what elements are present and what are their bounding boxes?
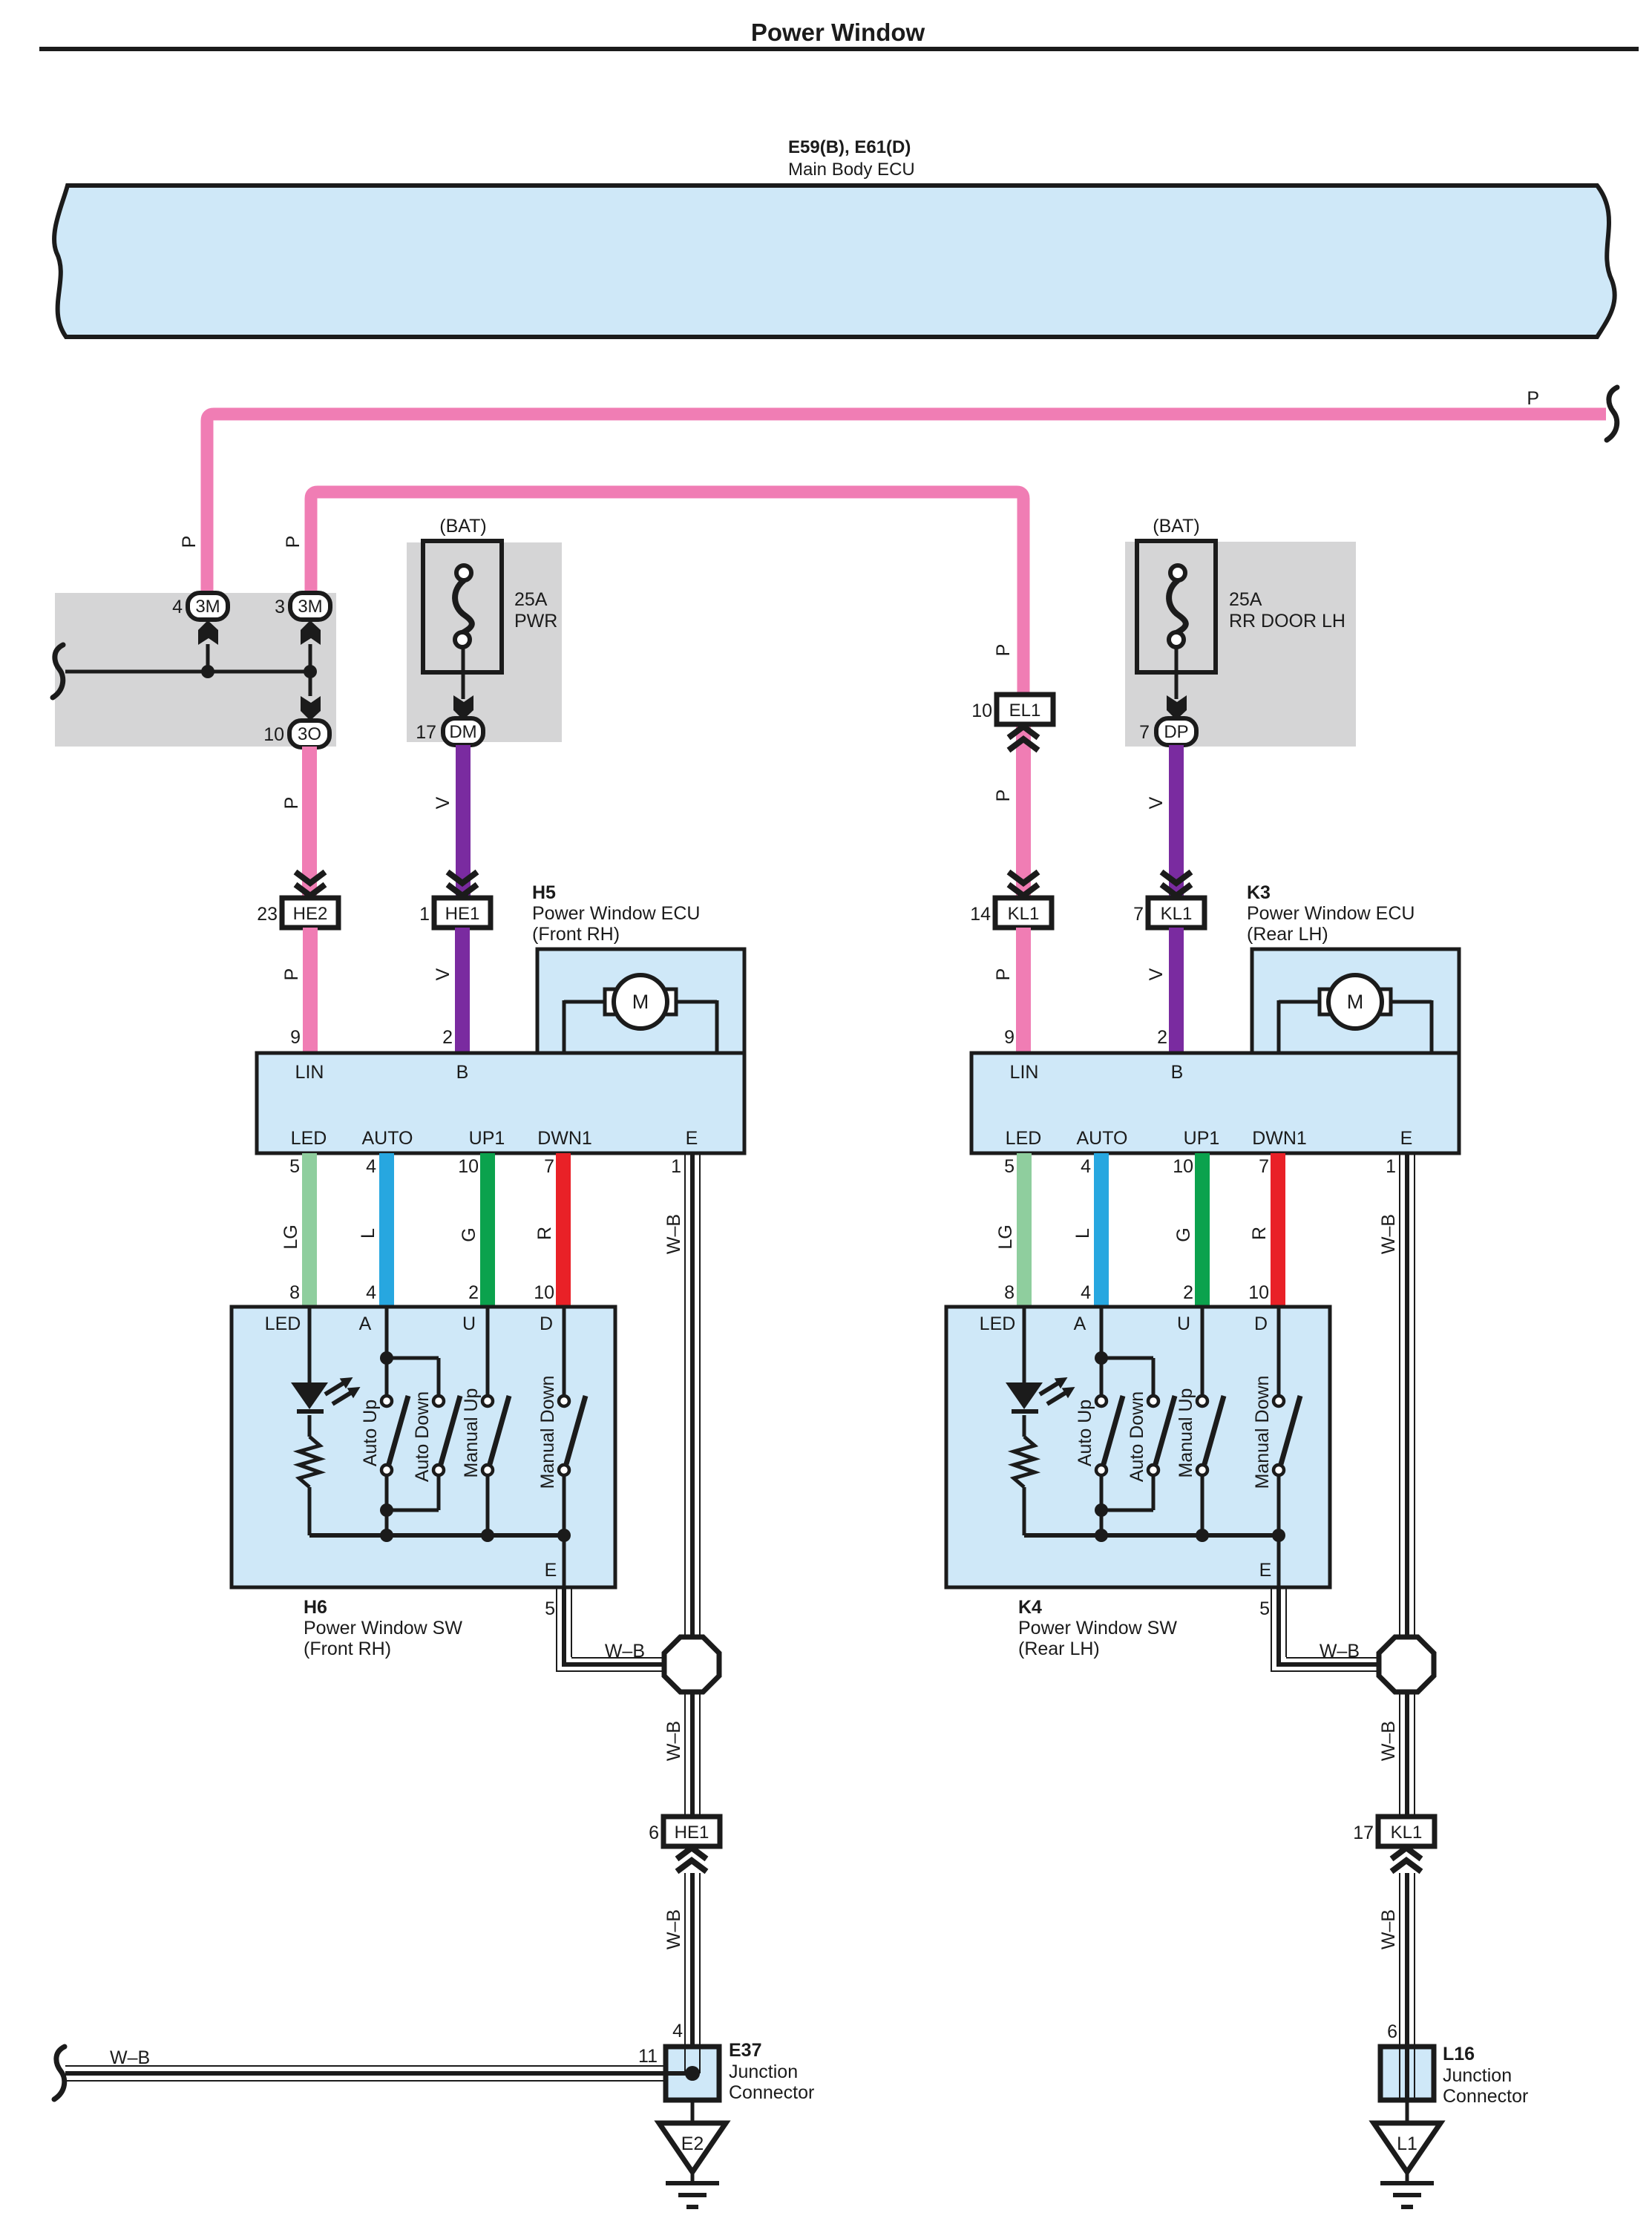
svg-text:EL1: EL1 bbox=[1009, 701, 1041, 721]
svg-text:2: 2 bbox=[1183, 1282, 1193, 1303]
label H6 bbox=[304, 1597, 462, 1659]
fuse RR DOOR LH element bbox=[1169, 565, 1186, 647]
label W-B above E37 bbox=[663, 1909, 684, 1949]
power window SW H6 bbox=[232, 1307, 615, 1587]
label P above EL1 bbox=[993, 644, 1014, 657]
svg-text:Junction: Junction bbox=[1443, 2065, 1512, 2086]
svg-text:B: B bbox=[1171, 1062, 1184, 1083]
wire LG right bbox=[1017, 1153, 1032, 1307]
svg-text:17: 17 bbox=[416, 722, 436, 743]
label H5 bbox=[532, 882, 700, 945]
wire G right bbox=[1195, 1153, 1210, 1307]
svg-text:2: 2 bbox=[1157, 1027, 1167, 1048]
svg-text:17: 17 bbox=[1353, 1823, 1374, 1843]
svg-text:HE1: HE1 bbox=[445, 904, 480, 924]
svg-text:10: 10 bbox=[263, 724, 284, 745]
arrow into 3O pin10 bbox=[301, 696, 321, 721]
svg-text:5: 5 bbox=[1259, 1598, 1270, 1619]
svg-text:Power Window SW: Power Window SW bbox=[304, 1618, 462, 1639]
wire V to HE1 bbox=[456, 745, 471, 898]
svg-text:B: B bbox=[456, 1062, 469, 1083]
svg-text:7: 7 bbox=[1139, 722, 1150, 743]
break squiggle harness left bbox=[53, 645, 63, 698]
svg-text:L: L bbox=[1072, 1228, 1093, 1239]
svg-text:E: E bbox=[1259, 1560, 1272, 1581]
svg-text:P: P bbox=[993, 644, 1014, 657]
svg-text:L16: L16 bbox=[1443, 2044, 1475, 2064]
svg-text:LED: LED bbox=[980, 1313, 1016, 1334]
label G left bbox=[459, 1227, 479, 1241]
svg-text:PWR: PWR bbox=[514, 611, 557, 632]
wire V to KL1-7 bbox=[1169, 745, 1184, 898]
splice octagon left bbox=[664, 1637, 719, 1692]
svg-text:Auto Down: Auto Down bbox=[1127, 1391, 1147, 1482]
svg-text:LG: LG bbox=[995, 1224, 1016, 1249]
svg-text:HE2: HE2 bbox=[293, 904, 328, 924]
svg-text:G: G bbox=[1173, 1227, 1194, 1241]
arrow into 3M pin3 bbox=[301, 620, 321, 645]
svg-text:1: 1 bbox=[1386, 1156, 1396, 1177]
svg-text:8: 8 bbox=[289, 1282, 300, 1303]
label (BAT) right bbox=[1153, 516, 1199, 537]
label (BAT) left bbox=[439, 516, 486, 537]
chevron into KL1-14 bbox=[1009, 872, 1038, 896]
chevron below HE1-6 bbox=[677, 1848, 707, 1872]
svg-text:E59(B), E61(D): E59(B), E61(D) bbox=[788, 137, 911, 157]
svg-text:P: P bbox=[993, 790, 1014, 802]
wire fuse to DP bbox=[1175, 647, 1179, 699]
wire V HE1 to ECU bbox=[455, 928, 470, 1053]
svg-text:A: A bbox=[1074, 1313, 1086, 1334]
splice octagon right bbox=[1379, 1637, 1434, 1692]
svg-text:A: A bbox=[359, 1313, 372, 1334]
svg-text:5: 5 bbox=[289, 1156, 300, 1177]
pin numbers above SW right bbox=[1004, 1282, 1269, 1303]
label P above ECU left bbox=[281, 968, 302, 981]
svg-text:5: 5 bbox=[1004, 1156, 1015, 1177]
label E37 bbox=[729, 2040, 814, 2103]
gray harness box left bbox=[55, 593, 336, 747]
label L right bbox=[1072, 1228, 1093, 1239]
label P wire1 vertical bbox=[179, 536, 200, 548]
label V above ECU right bbox=[1146, 968, 1167, 980]
junction dot E37 bbox=[685, 2066, 700, 2081]
pin numbers below ECU right bbox=[1004, 1156, 1396, 1177]
label V below DP bbox=[1146, 796, 1167, 809]
label W-B at octagon right bbox=[1320, 1641, 1360, 1662]
svg-text:3M: 3M bbox=[298, 597, 322, 617]
label L16 bbox=[1443, 2044, 1528, 2107]
wire V KL1 to ECU bbox=[1169, 928, 1184, 1053]
svg-text:L1: L1 bbox=[1397, 2133, 1417, 2154]
svg-text:L: L bbox=[358, 1228, 378, 1239]
svg-text:LED: LED bbox=[265, 1313, 301, 1334]
connector EL1 pin 10 bbox=[971, 695, 1053, 724]
svg-text:1: 1 bbox=[419, 904, 430, 925]
ECU K3 boxes bbox=[971, 949, 1459, 1153]
svg-text:3O: 3O bbox=[298, 724, 321, 744]
label R right bbox=[1249, 1227, 1270, 1240]
wire W-B ECU-E right bbox=[1400, 1153, 1415, 1820]
connector KL1 pin 14 bbox=[970, 898, 1052, 928]
chevron below EL1 bbox=[1009, 726, 1038, 750]
junction connector L16 bbox=[1380, 2047, 1434, 2100]
svg-text:DWN1: DWN1 bbox=[1252, 1128, 1307, 1149]
svg-text:Manual Down: Manual Down bbox=[537, 1376, 558, 1489]
arrow into 3M pin4 bbox=[198, 620, 218, 645]
connector 3M pin 3 bbox=[275, 593, 330, 620]
label V above ECU left bbox=[433, 968, 453, 980]
svg-text:Auto Up: Auto Up bbox=[1075, 1400, 1095, 1466]
pin 11 E37 bbox=[638, 2046, 658, 2067]
svg-text:4: 4 bbox=[172, 597, 183, 617]
motor leads H5 bbox=[564, 1000, 717, 1052]
junction dot B bbox=[304, 665, 317, 678]
svg-text:3: 3 bbox=[275, 597, 285, 617]
label P wire2 vertical bbox=[283, 536, 304, 548]
chevron into KL1-7 bbox=[1161, 872, 1191, 896]
horizontal W-B bus left bbox=[65, 2066, 689, 2081]
svg-text:DWN1: DWN1 bbox=[537, 1128, 592, 1149]
svg-text:UP1: UP1 bbox=[469, 1128, 505, 1149]
label G right bbox=[1173, 1227, 1194, 1241]
wire to 3M pin3 bbox=[309, 644, 312, 672]
label P below EL1 bbox=[993, 790, 1014, 802]
svg-text:4: 4 bbox=[1081, 1282, 1091, 1303]
wire P KL1 to ECU bbox=[1016, 928, 1031, 1053]
label K3 bbox=[1247, 882, 1415, 945]
svg-text:G: G bbox=[459, 1227, 479, 1241]
svg-text:14: 14 bbox=[970, 904, 991, 925]
wire to 3O pin10 bbox=[309, 672, 312, 696]
svg-text:7: 7 bbox=[1133, 904, 1144, 925]
svg-text:DM: DM bbox=[449, 722, 476, 742]
arrow into DP bbox=[1167, 695, 1187, 720]
chevron below KL1-17 bbox=[1392, 1848, 1421, 1872]
svg-text:LED: LED bbox=[291, 1128, 327, 1149]
svg-text:8: 8 bbox=[1004, 1282, 1015, 1303]
label 25A PWR bbox=[514, 589, 557, 632]
pin 9 LIN left bbox=[290, 1027, 301, 1048]
connector HE1 pin 6 bbox=[649, 1817, 720, 1846]
svg-text:(Front RH): (Front RH) bbox=[532, 924, 620, 945]
main body ECU box E59/E61 bbox=[54, 186, 1615, 337]
label 25A RR DOOR LH bbox=[1229, 589, 1345, 632]
motor leads K3 bbox=[1279, 1000, 1432, 1052]
svg-text:RR DOOR LH: RR DOOR LH bbox=[1229, 611, 1345, 632]
label L left bbox=[358, 1228, 378, 1239]
svg-text:H5: H5 bbox=[532, 882, 556, 903]
wire W-B KL1 to L16 bbox=[1400, 1873, 1415, 2100]
wire W-B through E37 v bbox=[685, 2047, 700, 2073]
svg-text:Junction: Junction bbox=[729, 2061, 798, 2082]
svg-text:4: 4 bbox=[672, 2021, 683, 2041]
svg-text:(Rear LH): (Rear LH) bbox=[1018, 1639, 1100, 1659]
svg-text:R: R bbox=[1249, 1227, 1270, 1240]
svg-text:W–B: W–B bbox=[110, 2047, 150, 2068]
wire to 3M pin4 bbox=[206, 644, 210, 672]
svg-text:P: P bbox=[993, 968, 1014, 981]
wire R left bbox=[556, 1153, 571, 1307]
wire W-B through L16 bbox=[1400, 2047, 1415, 2100]
svg-text:E37: E37 bbox=[729, 2040, 761, 2061]
svg-text:W–B: W–B bbox=[1378, 1909, 1399, 1949]
svg-text:P: P bbox=[1527, 388, 1539, 409]
title Power Window bbox=[751, 19, 925, 46]
connector HE1 pin 1 bbox=[419, 898, 491, 928]
label K4 bbox=[1018, 1597, 1177, 1659]
svg-text:6: 6 bbox=[1387, 2021, 1397, 2042]
wire W-B SW-E left bbox=[557, 1587, 666, 1672]
pin 2 B left bbox=[442, 1027, 453, 1048]
svg-text:Auto Down: Auto Down bbox=[412, 1391, 433, 1482]
fuse RR DOOR LH box bbox=[1137, 541, 1216, 672]
svg-text:10: 10 bbox=[534, 1282, 554, 1303]
svg-text:KL1: KL1 bbox=[1008, 904, 1040, 924]
wire P trunk 1 bbox=[207, 414, 1606, 605]
svg-text:W–B: W–B bbox=[1378, 1214, 1399, 1254]
connector DM pin 17 bbox=[416, 718, 483, 745]
svg-text:KL1: KL1 bbox=[1391, 1823, 1423, 1843]
svg-text:HE1: HE1 bbox=[675, 1823, 709, 1843]
svg-text:5: 5 bbox=[545, 1598, 555, 1619]
pin 4 above E37 bbox=[672, 2021, 683, 2041]
wire W-B HE1 to E37 bbox=[685, 1873, 700, 2073]
arrow into DM bbox=[453, 695, 473, 720]
label P wire1 right bbox=[1527, 388, 1539, 409]
svg-text:K4: K4 bbox=[1018, 1597, 1042, 1618]
wire P EL1 to KL1 bbox=[1016, 724, 1031, 898]
pin numbers below ECU left bbox=[289, 1156, 681, 1177]
svg-text:P: P bbox=[281, 968, 302, 981]
svg-text:AUTO: AUTO bbox=[362, 1128, 413, 1149]
ECU H5 pin labels bbox=[291, 1062, 698, 1149]
svg-text:Connector: Connector bbox=[1443, 2086, 1528, 2107]
gray fuse box PWR bbox=[407, 542, 562, 742]
wire L left bbox=[379, 1153, 394, 1307]
label V below DM bbox=[433, 796, 453, 809]
svg-text:Power Window ECU: Power Window ECU bbox=[1247, 903, 1415, 924]
ECU K3 pin labels bbox=[1006, 1062, 1413, 1149]
label P below 3O bbox=[281, 797, 302, 810]
wire P to HE2 bbox=[302, 747, 317, 898]
svg-text:23: 23 bbox=[257, 904, 278, 925]
svg-text:UP1: UP1 bbox=[1184, 1128, 1220, 1149]
svg-text:LED: LED bbox=[1006, 1128, 1042, 1149]
svg-text:P: P bbox=[281, 797, 302, 810]
svg-text:AUTO: AUTO bbox=[1077, 1128, 1128, 1149]
svg-text:D: D bbox=[1254, 1313, 1268, 1334]
gray fuse box RR DOOR LH bbox=[1125, 542, 1356, 747]
svg-text:6: 6 bbox=[649, 1823, 659, 1843]
svg-text:V: V bbox=[1146, 796, 1167, 809]
svg-text:4: 4 bbox=[1081, 1156, 1091, 1177]
svg-text:D: D bbox=[540, 1313, 553, 1334]
wire LG left bbox=[302, 1153, 317, 1307]
svg-text:LIN: LIN bbox=[1010, 1062, 1039, 1083]
label W-B below octagon left bbox=[663, 1721, 684, 1761]
svg-text:4: 4 bbox=[366, 1156, 376, 1177]
motor M H5 bbox=[605, 975, 676, 1029]
svg-text:U: U bbox=[1177, 1313, 1190, 1334]
svg-text:M: M bbox=[1347, 991, 1364, 1013]
connector 3O pin 10 bbox=[263, 721, 330, 747]
svg-text:M: M bbox=[632, 991, 649, 1013]
label LG right bbox=[995, 1224, 1016, 1249]
svg-text:25A: 25A bbox=[1229, 589, 1262, 610]
svg-text:1: 1 bbox=[671, 1156, 681, 1177]
svg-text:U: U bbox=[462, 1313, 476, 1334]
svg-text:E: E bbox=[1400, 1128, 1413, 1149]
svg-text:10: 10 bbox=[1248, 1282, 1269, 1303]
power window SW K4 bbox=[946, 1307, 1330, 1587]
label P above ECU right bbox=[993, 968, 1014, 981]
svg-text:Manual Down: Manual Down bbox=[1252, 1376, 1273, 1489]
svg-text:9: 9 bbox=[290, 1027, 301, 1048]
svg-text:LG: LG bbox=[281, 1224, 301, 1249]
svg-text:Manual Up: Manual Up bbox=[1176, 1388, 1196, 1478]
wire P HE2 to ECU bbox=[303, 928, 318, 1053]
svg-text:10: 10 bbox=[458, 1156, 479, 1177]
connector 3M pin 4 bbox=[172, 593, 228, 620]
svg-text:W–B: W–B bbox=[663, 1721, 684, 1761]
svg-text:Power Window ECU: Power Window ECU bbox=[532, 903, 700, 924]
svg-text:W–B: W–B bbox=[605, 1641, 645, 1662]
svg-text:10: 10 bbox=[971, 701, 992, 721]
motor M K3 bbox=[1320, 975, 1391, 1029]
svg-text:DP: DP bbox=[1164, 722, 1188, 742]
pin 5 below SW right bbox=[1259, 1598, 1270, 1619]
svg-text:H6: H6 bbox=[304, 1597, 327, 1618]
svg-text:(Rear LH): (Rear LH) bbox=[1247, 924, 1328, 945]
ground E2 bbox=[659, 2099, 726, 2207]
label W-B above L16 bbox=[1378, 1909, 1399, 1949]
pin 6 above L16 bbox=[1387, 2021, 1397, 2042]
svg-text:7: 7 bbox=[1259, 1156, 1269, 1177]
break squiggle W-B left bbox=[54, 2047, 65, 2099]
svg-text:7: 7 bbox=[544, 1156, 554, 1177]
svg-text:E: E bbox=[686, 1128, 698, 1149]
svg-text:Power Window SW: Power Window SW bbox=[1018, 1618, 1177, 1639]
ground L1 bbox=[1374, 2099, 1440, 2207]
svg-text:(BAT): (BAT) bbox=[439, 516, 486, 537]
ECU H5 boxes bbox=[257, 949, 744, 1153]
junction dot A bbox=[201, 665, 214, 678]
svg-text:V: V bbox=[433, 968, 453, 980]
svg-text:E2: E2 bbox=[681, 2133, 704, 2154]
fuse PWR box bbox=[423, 541, 502, 672]
svg-text:4: 4 bbox=[366, 1282, 376, 1303]
fuse PWR element bbox=[455, 565, 472, 647]
label W-B ECU-E left bbox=[663, 1214, 684, 1254]
pin numbers above SW left bbox=[289, 1282, 554, 1303]
wire W-B ECU-E left bbox=[685, 1153, 700, 1820]
pin 5 below SW left bbox=[545, 1598, 555, 1619]
label W-B bus left bbox=[110, 2047, 150, 2068]
svg-text:W–B: W–B bbox=[1378, 1721, 1399, 1761]
svg-text:Connector: Connector bbox=[729, 2082, 814, 2103]
svg-text:W–B: W–B bbox=[1320, 1641, 1360, 1662]
label E59(B), E61(D) bbox=[788, 137, 911, 157]
svg-text:LIN: LIN bbox=[295, 1062, 324, 1083]
svg-text:P: P bbox=[283, 536, 304, 548]
junction connector E37 bbox=[666, 2047, 719, 2100]
connector KL1 pin 7 bbox=[1133, 898, 1204, 928]
wire R right bbox=[1271, 1153, 1285, 1307]
chevron into HE2 bbox=[295, 872, 325, 896]
svg-text:2: 2 bbox=[442, 1027, 453, 1048]
label LG left bbox=[281, 1224, 301, 1249]
label W-B ECU-E right bbox=[1378, 1214, 1399, 1254]
wire P trunk 2 bbox=[311, 492, 1023, 696]
pin 2 B right bbox=[1157, 1027, 1167, 1048]
wire G left bbox=[480, 1153, 495, 1307]
svg-text:V: V bbox=[433, 796, 453, 809]
svg-text:Auto Up: Auto Up bbox=[360, 1400, 381, 1466]
svg-text:9: 9 bbox=[1004, 1027, 1015, 1048]
svg-text:25A: 25A bbox=[514, 589, 548, 610]
svg-text:10: 10 bbox=[1173, 1156, 1193, 1177]
break squiggle wire P1 right bbox=[1607, 387, 1617, 440]
svg-text:11: 11 bbox=[638, 2046, 658, 2067]
wire harness bus bbox=[65, 670, 310, 674]
svg-text:R: R bbox=[534, 1227, 555, 1240]
label W-B at octagon left bbox=[605, 1641, 645, 1662]
connector KL1 pin 17 bbox=[1353, 1817, 1435, 1846]
label R left bbox=[534, 1227, 555, 1240]
svg-text:Main Body ECU: Main Body ECU bbox=[788, 160, 915, 180]
svg-text:V: V bbox=[1146, 968, 1167, 980]
svg-text:2: 2 bbox=[468, 1282, 479, 1303]
svg-text:Power Window: Power Window bbox=[751, 19, 925, 46]
chevron into HE1 bbox=[448, 872, 477, 896]
svg-text:K3: K3 bbox=[1247, 882, 1271, 903]
wire L right bbox=[1094, 1153, 1109, 1307]
wire W-B SW-E right bbox=[1271, 1587, 1380, 1672]
svg-text:KL1: KL1 bbox=[1161, 904, 1193, 924]
svg-text:W–B: W–B bbox=[663, 1214, 684, 1254]
svg-text:(Front RH): (Front RH) bbox=[304, 1639, 391, 1659]
connector HE2 pin 23 bbox=[257, 898, 338, 928]
svg-text:3M: 3M bbox=[195, 597, 220, 617]
svg-text:Manual Up: Manual Up bbox=[461, 1388, 482, 1478]
label Main Body ECU bbox=[788, 160, 915, 180]
label W-B below octagon right bbox=[1378, 1721, 1399, 1761]
svg-text:P: P bbox=[179, 536, 200, 548]
pin 9 LIN right bbox=[1004, 1027, 1015, 1048]
svg-text:W–B: W–B bbox=[663, 1909, 684, 1949]
connector DP pin 7 bbox=[1139, 718, 1196, 745]
title rule bbox=[39, 47, 1639, 51]
svg-text:(BAT): (BAT) bbox=[1153, 516, 1199, 537]
wire fuse to DM bbox=[462, 647, 465, 699]
svg-text:E: E bbox=[545, 1560, 557, 1581]
